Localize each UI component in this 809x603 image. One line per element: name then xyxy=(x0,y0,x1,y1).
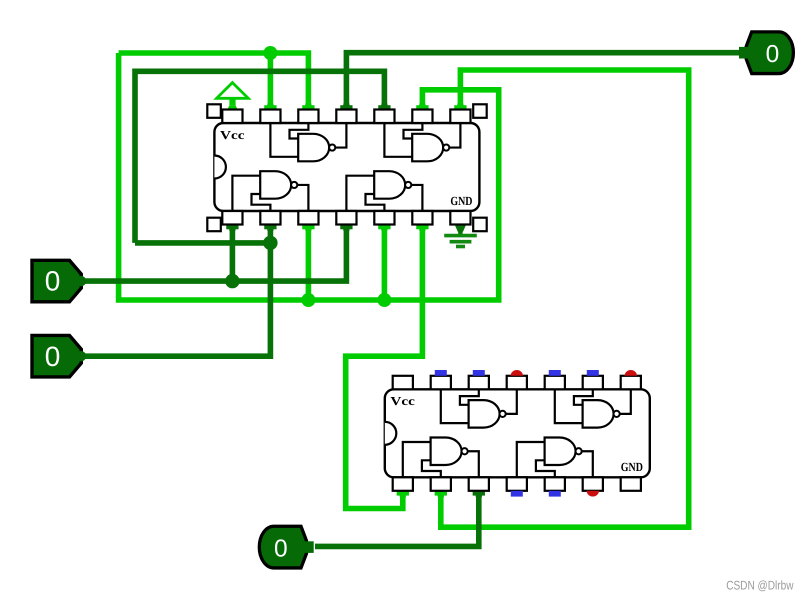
IC2 bottom pin 12 wire stub xyxy=(476,491,482,497)
U1 bottom pin 10 xyxy=(374,211,394,225)
IC1 unused corner pad top-right xyxy=(473,104,487,118)
junction: bright dot at (270.4,53) xyxy=(263,46,277,60)
IC2 top pin 3 blue state marker xyxy=(473,370,485,376)
U1A output wire xyxy=(335,123,347,148)
wire: dark upper loop to IC1 pin5 xyxy=(135,71,384,243)
U2 top pin 7 xyxy=(621,376,641,390)
U2 bottom pin 10 xyxy=(545,477,565,491)
U2 top pin 3 xyxy=(469,376,489,390)
NAND gate U1C xyxy=(260,171,291,199)
NAND gate U2B xyxy=(583,400,614,428)
U2 bottom pin 12 xyxy=(469,477,489,491)
U2C inversion bubble xyxy=(462,448,468,454)
U1 top pin 7 xyxy=(450,110,470,124)
U1C inversion bubble xyxy=(291,182,297,188)
U1A inversion bubble xyxy=(329,144,335,150)
IC1 bottom pin 14 wire stub xyxy=(229,225,235,231)
U1C output wire xyxy=(297,185,309,211)
NAND gate U2C xyxy=(431,438,462,466)
U1 top pin 3 xyxy=(298,110,318,124)
U2C input A wire xyxy=(403,442,431,477)
wire: dark IC1 pin b2 (13) down to connector J2 xyxy=(84,224,270,356)
U1 pin-1 notch xyxy=(214,156,226,179)
IC1 bottom pin 12 wire stub xyxy=(305,225,311,231)
U1 bottom pin 9 xyxy=(412,211,432,225)
IC1 top pin 7 wire stub xyxy=(457,104,463,110)
wire: bright top bus y=53 from x=118.6 to IC1 pin3 xyxy=(119,53,309,104)
input connector J3 (logic 0, bottom) xyxy=(259,526,306,568)
NAND gate U1B xyxy=(412,134,443,162)
U2B input A wire xyxy=(555,389,583,423)
U2 bottom pin 11 xyxy=(507,477,527,491)
U2 bottom pin 9 xyxy=(583,477,603,491)
NAND gate U1A xyxy=(298,134,329,162)
U2B inversion bubble xyxy=(614,411,620,417)
U2 top pin 5 xyxy=(545,376,565,390)
U2C output wire xyxy=(467,451,479,477)
U2A input B wire xyxy=(460,389,479,405)
junction: bright dot at (384.4,300) xyxy=(377,293,391,307)
junction: dark dot at (270.4,242.9) xyxy=(263,236,277,250)
U1 bottom pin 11 xyxy=(336,211,356,225)
U1 top pin 2 xyxy=(260,110,280,124)
IC2 top pin 6 blue state marker xyxy=(587,370,599,376)
IC2 bottom pin 10 blue state marker xyxy=(549,491,561,497)
IC2 bottom pin 11 blue state marker xyxy=(511,491,523,497)
IC2 top pin 5 blue state marker xyxy=(549,370,561,376)
U2 top pin 4 xyxy=(507,376,527,390)
U1A input A wire xyxy=(270,123,298,157)
IC1 top pin 3 wire stub xyxy=(305,104,311,110)
IC1 top pin 6 wire stub xyxy=(419,104,425,110)
U1B inversion bubble xyxy=(443,144,449,150)
svg-text:0: 0 xyxy=(274,535,288,562)
IC1 bottom pin 9 wire stub xyxy=(419,225,425,231)
NAND gate U1D xyxy=(374,171,405,199)
U2 top pin 1 xyxy=(393,376,413,390)
svg-text:Vcc: Vcc xyxy=(220,128,245,142)
svg-text:GND: GND xyxy=(621,460,643,474)
U1C input A wire xyxy=(232,176,260,211)
wire: bright IC1 pin b6 (9) loop to IC2 pin b1 xyxy=(346,225,423,509)
U2 top pin 6 xyxy=(583,376,603,390)
U2A inversion bubble xyxy=(500,411,506,417)
junction: dark dot at (232.4,281.1) xyxy=(225,274,239,288)
IC1 unused corner pad bottom-right xyxy=(473,218,487,232)
U1D input A wire xyxy=(346,176,374,211)
IC1 top pin 2 wire stub xyxy=(267,104,273,110)
IC1 bottom pin 11 wire stub xyxy=(343,225,349,231)
ground symbol below IC1 pin 7 (GND) xyxy=(454,224,466,232)
IC U1 quad-NAND DIP body xyxy=(214,123,479,211)
U2 top pin 2 xyxy=(431,376,451,390)
U1 bottom pin 14 xyxy=(222,211,242,225)
Vcc power symbol above IC1 pin 1 xyxy=(217,83,249,99)
wire: dark IC1 pin b1 (14) drop to J1 line xyxy=(230,224,236,281)
svg-text:CSDN @Dlrbw: CSDN @Dlrbw xyxy=(726,578,794,592)
IC2 top pin 4 red state marker xyxy=(511,370,523,376)
U2D output wire xyxy=(581,451,593,477)
wire: bright drop to IC1 pin2 xyxy=(268,53,274,104)
svg-text:Vcc: Vcc xyxy=(390,394,415,408)
IC2 top pin 7 red state marker xyxy=(625,370,637,376)
U2C input B wire xyxy=(422,460,441,477)
input connector J2 (logic 0) xyxy=(32,335,81,377)
IC2 bottom pin 14 wire stub xyxy=(400,491,406,497)
wire: bright riser IC1 pin b3 (12) to lower bus xyxy=(306,225,312,300)
U1C input B wire xyxy=(252,194,271,211)
svg-text:0: 0 xyxy=(45,341,61,372)
U1 bottom pin 13 xyxy=(260,211,280,225)
IC1 top pin 5 wire stub xyxy=(381,104,387,110)
U1B output wire xyxy=(449,123,461,148)
U1A input B wire xyxy=(290,123,309,139)
U1 top pin 4 xyxy=(336,110,356,124)
wire: bright IC1 pin7 to right loop down to IC2 pin b2 xyxy=(441,70,689,527)
IC1 top pin 4 wire stub xyxy=(343,104,349,110)
U1B input A wire xyxy=(384,123,412,157)
IC1 bottom pin 10 wire stub xyxy=(381,225,387,231)
U2A output wire xyxy=(505,389,517,414)
svg-text:GND: GND xyxy=(450,194,472,208)
U2D inversion bubble xyxy=(576,448,582,454)
U2 bottom pin 14 xyxy=(393,477,413,491)
IC2 top pin 2 blue state marker xyxy=(435,370,447,376)
junction: bright dot at (308.4,300) xyxy=(301,293,315,307)
wire: bright left vertical + lower bus + right riser to IC1 pin6 xyxy=(119,53,499,300)
wire: dark from connector J4 (top right) to IC1 pin4 xyxy=(346,53,739,104)
U1 bottom pin 12 xyxy=(298,211,318,225)
U2D input B wire xyxy=(536,460,555,477)
NAND gate U2A xyxy=(469,400,500,428)
wire: dark from connector J3 (bottom) to IC2 pin b3 xyxy=(315,491,479,547)
svg-text:0: 0 xyxy=(45,266,61,297)
U2B input B wire xyxy=(574,389,593,405)
U2 bottom pin 13 xyxy=(431,477,451,491)
NAND gate U2D xyxy=(545,438,576,466)
U1D output wire xyxy=(411,185,423,211)
wire: bright riser IC1 pin b5 (10) to lower bus xyxy=(382,225,388,300)
U2D input A wire xyxy=(517,442,545,477)
IC2 bottom pin 9 red state marker xyxy=(587,491,599,497)
U2 pin-1 notch xyxy=(385,422,397,445)
U1 bottom pin 8 xyxy=(450,211,470,225)
IC1 unused corner pad bottom-left xyxy=(207,218,221,232)
IC1 unused corner pad top-left xyxy=(207,104,221,118)
IC1 bottom pin 13 wire stub xyxy=(267,225,273,231)
U2B output wire xyxy=(619,389,631,414)
U1 top pin 1 xyxy=(222,110,242,124)
input connector J1 (logic 0) xyxy=(32,260,81,302)
input connector J4 (logic 0, top right) xyxy=(746,32,793,74)
svg-text:0: 0 xyxy=(766,41,780,68)
wire: dark horizontal to pin b2 junction xyxy=(135,240,270,246)
U1 top pin 5 xyxy=(374,110,394,124)
U1 top pin 6 xyxy=(412,110,432,124)
IC2 bottom pin 13 wire stub xyxy=(438,491,444,497)
U1D input B wire xyxy=(366,194,385,211)
U2A input A wire xyxy=(441,389,469,423)
IC U2 quad-NAND DIP body xyxy=(385,389,650,477)
wire: dark from connector J1 to IC1 pin b4 (11) xyxy=(81,224,346,281)
U1D inversion bubble xyxy=(405,182,411,188)
U1B input B wire xyxy=(404,123,423,139)
U2 bottom pin 8 xyxy=(621,477,641,491)
